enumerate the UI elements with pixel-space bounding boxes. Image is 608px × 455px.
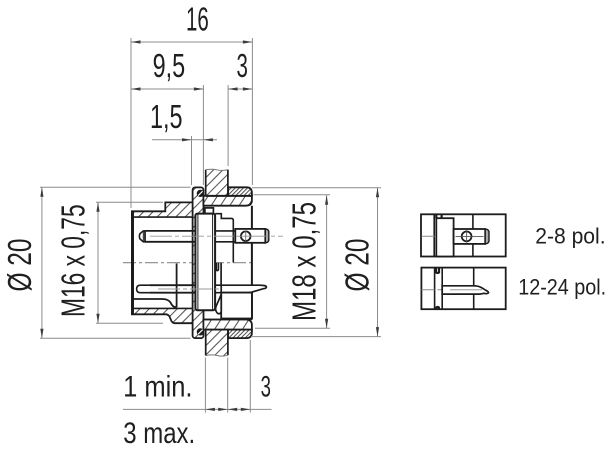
svg-text:M18 x 0,75: M18 x 0,75: [287, 202, 324, 321]
side view 12-24 pol. bracket marks: [436, 268, 439, 310]
dimension M18 x 0,75 right: [254, 195, 331, 328]
shell front barrel top wall (hatched): [131, 202, 196, 217]
svg-text:16: 16: [186, 1, 209, 38]
side view 2-8 pol. insert block: [436, 214, 453, 256]
shell front face: [131, 211, 134, 314]
side view 12-24 pol. blade contact: [442, 286, 488, 294]
back shell inner step (top staircase): [215, 214, 233, 263]
label 2-8 pol.: [535, 223, 605, 249]
retention wedge lower: [216, 295, 222, 314]
lock nut upper (hatched): [228, 187, 252, 196]
lower blade centerline: [158, 288, 246, 290]
back body right face: [251, 206, 253, 320]
o-ring lower: [197, 328, 204, 335]
insert skirt lower: [134, 264, 177, 308]
panel lower piece (hatched): [206, 330, 228, 357]
insert column: [195, 214, 215, 311]
mounting flange (hatched): [193, 187, 204, 338]
svg-text:2-8 pol.: 2-8 pol.: [535, 223, 605, 249]
dimension 16: [131, 38, 252, 208]
svg-text:Ø 20: Ø 20: [340, 239, 376, 292]
svg-text:3 max.: 3 max.: [123, 415, 195, 449]
lock nut lower (hatched): [228, 330, 252, 339]
svg-text:1 min.: 1 min.: [123, 370, 192, 403]
svg-text:1,5: 1,5: [150, 99, 183, 136]
lower blade contact left cap: [137, 285, 222, 293]
svg-text:12-24 pol.: 12-24 pol.: [518, 276, 606, 300]
lower contact block: [221, 293, 252, 319]
dimension 9,5: [131, 85, 203, 185]
svg-text:3: 3: [237, 47, 248, 84]
svg-text:3: 3: [261, 370, 271, 404]
lower blade external part: [221, 285, 266, 292]
back body bottom inner edge: [203, 319, 252, 321]
side view 2-8 pol. outer box: [421, 214, 506, 256]
label 3 max.: [123, 415, 195, 449]
side view 2-8 pol. solder contact: [454, 229, 489, 244]
upper pin centerline: [150, 235, 283, 237]
dimension diameter 20 left: [40, 187, 191, 338]
svg-text:M16 x 0,75: M16 x 0,75: [55, 204, 92, 317]
dimension M16 x 0,75 left: [96, 202, 163, 323]
svg-text:Ø 20: Ø 20: [3, 239, 39, 292]
dimension diameter 20 right: [251, 188, 381, 337]
o-ring upper: [197, 190, 204, 197]
threaded neck upper wall (hatched): [203, 196, 252, 206]
side view 2-8 pol. centerline: [422, 235, 456, 237]
side view 12-24 pol. outer box: [421, 268, 505, 310]
bottom dimension line: [123, 340, 272, 413]
panel upper piece (hatched): [206, 169, 228, 196]
svg-text:9,5: 9,5: [153, 48, 186, 85]
contact retention ticks at axis: [216, 263, 221, 286]
centerline main axis: [123, 262, 252, 264]
threaded neck lower wall (hatched): [203, 320, 252, 330]
label 3 bottom: [261, 370, 271, 404]
insert key block: [205, 208, 214, 214]
shell front barrel bottom wall (hatched): [131, 308, 196, 323]
upper pin contact: [139, 231, 235, 242]
dimension 1,5: [152, 136, 217, 185]
dimension 3 top: [228, 85, 252, 166]
label 12-24 pol.: [518, 276, 606, 300]
solder cup contact with hole: [235, 229, 268, 243]
side view 12-24 pol. centerline: [422, 289, 443, 291]
label 1 min.: [123, 370, 192, 403]
